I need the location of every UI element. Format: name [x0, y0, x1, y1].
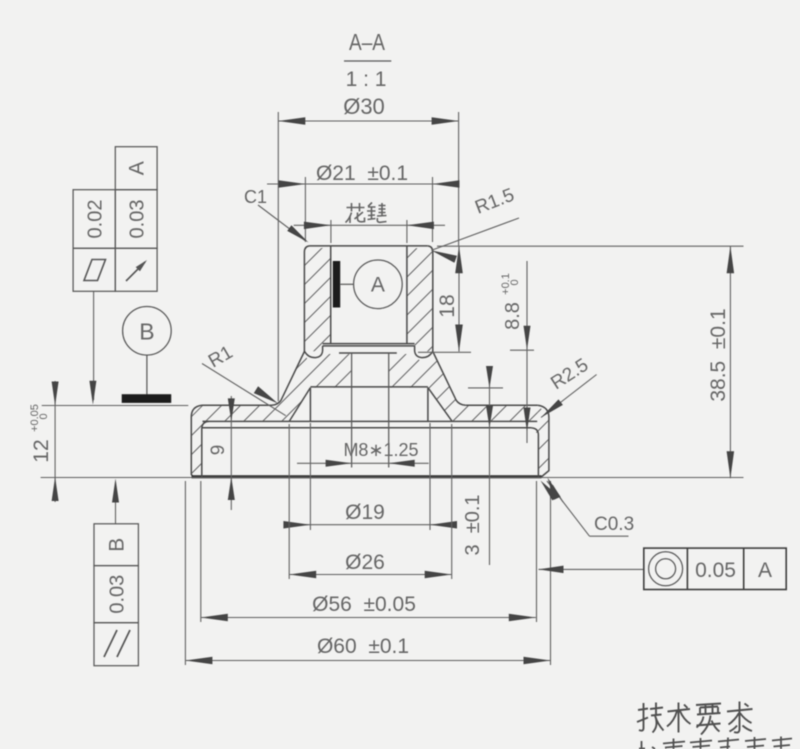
recess pocket left vertical	[309, 388, 311, 422]
spline bore right wall	[406, 246, 408, 344]
ext line D56 right	[536, 481, 538, 622]
leader C0.3 lines	[547, 481, 590, 536]
flange top face right	[466, 404, 538, 406]
svg-text:8.8: 8.8	[502, 302, 524, 330]
frame cell parallelism symbol	[94, 623, 138, 666]
frame cell B	[94, 524, 138, 566]
datum B circle	[123, 307, 172, 356]
ext line D60 right	[550, 481, 552, 665]
frame cell circular runout symbol	[115, 248, 157, 291]
flange top face left	[202, 404, 272, 406]
concentricity leader	[539, 568, 644, 570]
svg-text:1 : 1: 1 : 1	[346, 68, 387, 91]
svg-text:B: B	[139, 319, 154, 345]
flange bottom extension thin line full width	[41, 477, 744, 479]
bore relief foot right	[415, 346, 433, 358]
M8 thread right wall	[388, 353, 390, 468]
ext line spline left	[330, 220, 332, 243]
dim line D21	[267, 183, 458, 185]
cone flank right with fillet	[433, 352, 466, 406]
recess pocket right vertical	[427, 388, 429, 422]
leader R2.5	[541, 375, 597, 418]
svg-text:0.02: 0.02	[85, 200, 107, 239]
svg-text:38.5 ±0.1: 38.5 ±0.1	[707, 308, 730, 401]
ext tick at y388	[468, 387, 503, 389]
svg-text:A–A: A–A	[349, 29, 386, 55]
dim 9	[208, 445, 229, 456]
leader from parallelism frame	[115, 482, 117, 524]
label R1	[205, 342, 237, 372]
hatch cone left	[202, 353, 352, 422]
svg-text:3 ±0.1: 3 ±0.1	[462, 494, 484, 555]
ext line D60 left	[184, 481, 186, 665]
svg-text:A: A	[758, 559, 772, 582]
label R2.5	[547, 355, 592, 394]
svg-text:Ø60 ±0.1: Ø60 ±0.1	[317, 635, 409, 658]
leader R1	[202, 364, 286, 416]
ext line top face right long	[437, 245, 744, 247]
M8 thread left wall	[351, 353, 353, 468]
ext line D30 left	[277, 112, 279, 401]
recess pocket left chamfer diagonal	[289, 388, 310, 422]
recess pocket right chamfer diagonal	[428, 388, 452, 422]
ext line D30 right	[458, 112, 460, 246]
svg-text:Ø19: Ø19	[345, 501, 385, 524]
flange top corner radius right R2.5	[538, 405, 549, 477]
part top face	[310, 245, 428, 247]
svg-text:0.03: 0.03	[127, 200, 149, 239]
datum A target bar	[333, 261, 340, 308]
svg-text:Ø56 ±0.05: Ø56 ±0.05	[312, 593, 416, 616]
svg-text:B: B	[106, 538, 129, 552]
cavity wall left (inside flange)	[202, 421, 209, 476]
svg-text:C0.3: C0.3	[594, 514, 634, 535]
note line 1 partial (cut off at bottom)	[639, 737, 792, 749]
datum A circle	[354, 260, 403, 309]
frame cell 0.02	[73, 190, 115, 249]
leader R1.5	[431, 218, 519, 250]
svg-text:Ø30: Ø30	[343, 94, 385, 119]
dim line M8	[297, 462, 429, 464]
datum A connector line	[340, 283, 353, 285]
ext line D19 right	[429, 423, 431, 530]
cavity ceiling line upper	[203, 420, 538, 422]
dim 3 +-0.1	[462, 494, 484, 555]
concentricity frame box	[644, 548, 786, 589]
spline label huajian (hand-drawn)	[346, 203, 387, 224]
svg-text:12: 12	[30, 439, 53, 462]
svg-text:C1: C1	[244, 187, 267, 207]
cone flank left with fillet	[272, 352, 305, 406]
svg-text:Ø21 ±0.1: Ø21 ±0.1	[316, 162, 408, 185]
hatch cone right	[389, 353, 538, 422]
leader C1	[258, 205, 305, 241]
dim line 12	[54, 381, 56, 502]
dim line D30	[278, 120, 458, 122]
spline bore left wall	[330, 246, 332, 344]
recess pocket ceiling	[310, 386, 428, 388]
hub left wall and top corner	[304, 246, 309, 352]
ext line D21 right	[432, 177, 434, 242]
M8 thread top line	[339, 352, 397, 354]
dim 12 +0.05/0	[30, 439, 53, 462]
ext line bore bottom right	[418, 351, 471, 353]
flange bottom face heavy line	[192, 475, 542, 478]
leader from flatness frame	[93, 291, 95, 400]
dim line 38.5	[729, 246, 731, 478]
bore relief foot left	[304, 346, 322, 358]
frame cell flatness symbol	[73, 248, 115, 291]
frame cell 0.03	[115, 190, 157, 249]
svg-text:A: A	[126, 161, 149, 175]
svg-text:Ø26: Ø26	[345, 551, 385, 574]
datum B stem	[146, 355, 148, 395]
dim line spline	[294, 224, 445, 226]
leader C0.3 underline	[590, 535, 629, 537]
svg-text:18: 18	[436, 294, 459, 317]
title underline	[344, 60, 391, 62]
datum B base bar	[122, 394, 172, 403]
ext line D26 left	[288, 424, 290, 579]
svg-text:0.05: 0.05	[695, 559, 736, 582]
svg-text:9: 9	[208, 445, 229, 456]
svg-text:0: 0	[509, 279, 521, 288]
ext line flange top left	[42, 405, 189, 407]
svg-text:A: A	[371, 274, 385, 297]
hatch flange rim left	[191, 405, 202, 476]
svg-text:0.03: 0.03	[107, 575, 129, 614]
hub right wall and top corner	[428, 246, 433, 352]
label R1.5	[472, 185, 517, 219]
bore bottom seat line lower	[323, 345, 415, 347]
cavity ceiling line lower	[203, 427, 532, 429]
dim 8.8 +0.1/0	[502, 302, 524, 330]
dim 18	[436, 294, 459, 317]
ext line D21 left	[304, 177, 306, 242]
hatch flange rim right	[531, 405, 549, 476]
frame cell 0.03 (parallelism)	[94, 566, 138, 623]
cavity wall right (inside flange)	[531, 428, 538, 477]
ext tick at y350 right	[510, 349, 534, 351]
ext line D26 right	[451, 424, 453, 579]
frame cell A	[115, 147, 157, 190]
concentricity symbol	[649, 552, 683, 586]
ext line D56 left	[200, 481, 202, 622]
bore bottom seat line upper	[323, 343, 415, 345]
hatch hub right wall	[407, 247, 433, 352]
ext line spline right	[406, 220, 408, 243]
flange top corner radius left	[191, 405, 202, 477]
ext line D19 left	[309, 423, 311, 530]
svg-text:0: 0	[38, 413, 50, 422]
svg-text:M8∗1.25: M8∗1.25	[343, 440, 418, 460]
dim 38.5 +-0.1	[707, 308, 730, 401]
note title: technical requirements (hand-drawn hanzi)	[637, 702, 753, 735]
hatch hub left wall	[304, 247, 330, 352]
